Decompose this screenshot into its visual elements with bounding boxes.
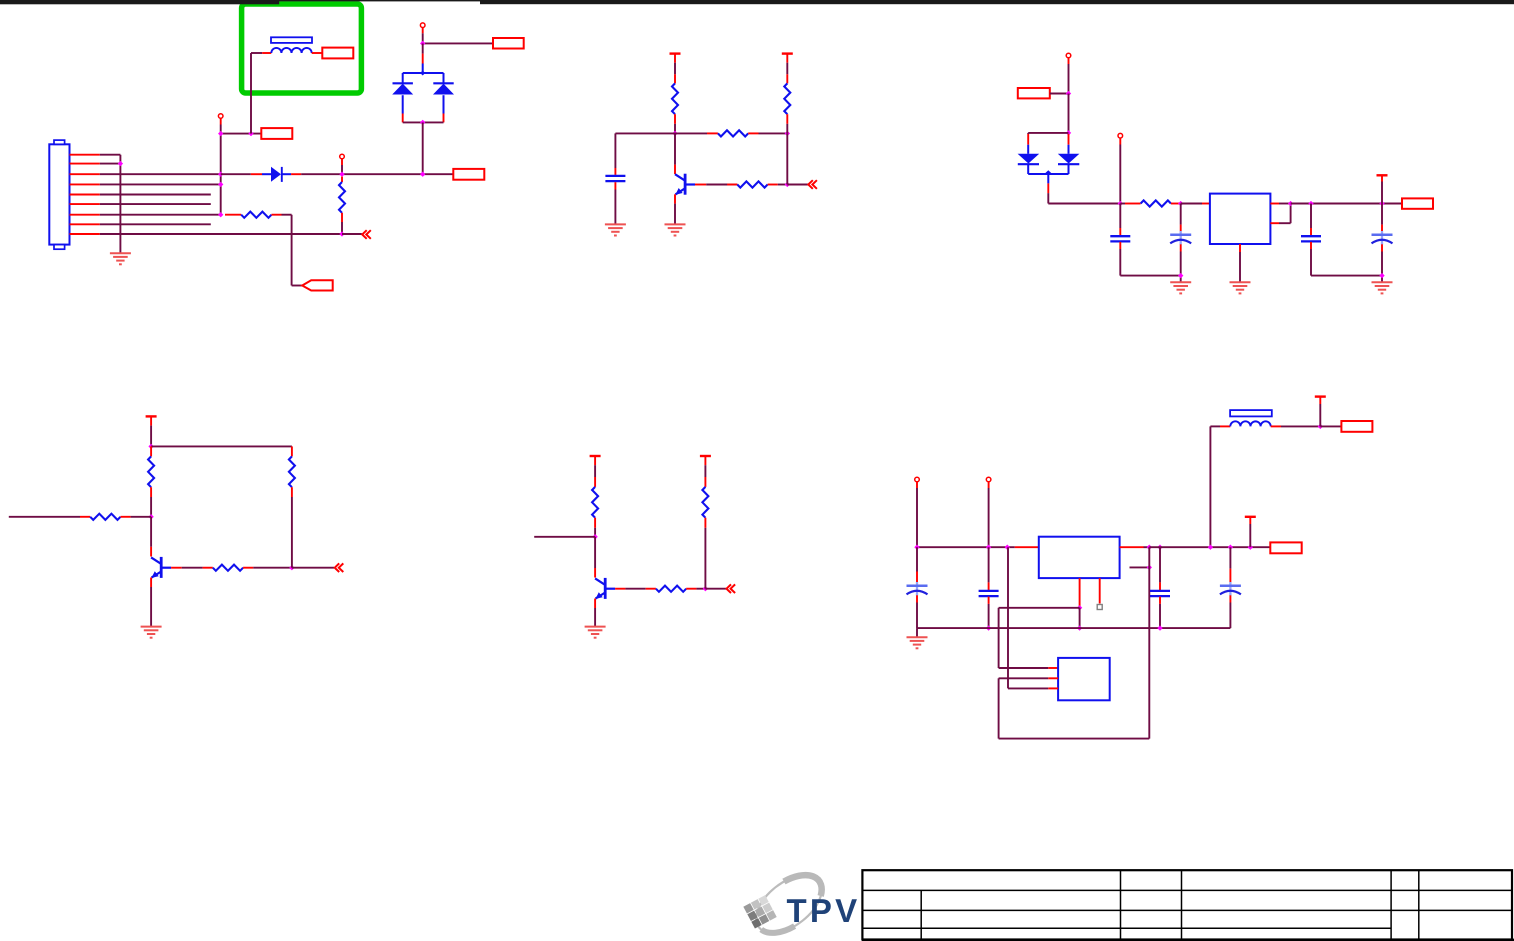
connector CN1 pin 5 lead (70, 194, 100, 196)
resistor R1 (339, 182, 345, 213)
logo pixel grid (743, 895, 776, 928)
resistor R2 (241, 212, 271, 218)
terminal P5 (1118, 133, 1123, 138)
blue junction (420, 70, 425, 75)
capacitor C10 top lead (1229, 547, 1231, 568)
zener D1 (up) (402, 73, 404, 83)
net stub dash (1130, 566, 1150, 568)
sheet top border left (0, 0, 279, 4)
wire U3 pin2 (999, 677, 1049, 679)
capacitor C3 bottom (1119, 242, 1121, 249)
junction C8 (1178, 273, 1183, 278)
main line seg b (301, 173, 453, 175)
no-connect square (1097, 605, 1102, 610)
wire gnd drop (119, 155, 121, 254)
U2 nc pin (1099, 578, 1101, 603)
Q3 emitter wire (594, 599, 596, 609)
ground drop (916, 628, 918, 637)
wire gnd continue (1079, 608, 1081, 628)
wire P2 down (422, 43, 424, 53)
net flag F1 (302, 280, 333, 290)
resistor R6 lead (786, 114, 788, 124)
wire P2 to label (423, 42, 493, 44)
resistor R6 (784, 83, 790, 114)
junction F2 (914, 545, 919, 550)
diode D3 left lead (251, 173, 262, 175)
junction D2 (148, 514, 153, 519)
regulator U1 (1210, 194, 1271, 244)
terminal P3 (340, 154, 345, 159)
resistor R7 right lead (1171, 203, 1181, 205)
ground G4 (1230, 281, 1251, 283)
wire coil left lead (251, 52, 262, 54)
wire T1 right branch (786, 133, 788, 184)
pair bottom rail (1028, 173, 1068, 175)
U2 gnd pin (1079, 578, 1081, 608)
terminal P6 (915, 477, 920, 482)
label box L8 (1270, 542, 1301, 553)
junction D3 (289, 565, 294, 570)
vertical bus x=220.7 (220, 134, 222, 215)
capacitor C6 bottom (1381, 244, 1383, 251)
rail y547 seg1 (917, 546, 1015, 548)
wire T6 down (704, 456, 706, 465)
junction pin4 (218, 182, 223, 187)
capacitor C5 bottom (1310, 242, 1312, 249)
resistor R9 right lead (121, 516, 131, 518)
resistor R5 right lead (768, 184, 778, 186)
sheet top border thin (0, 0, 1514, 1)
wire y607 (999, 607, 1080, 609)
junction bottom rail (420, 120, 425, 125)
wire to offpage E (705, 588, 726, 590)
U2 out lead (1120, 546, 1144, 548)
ferrite bead FB2 (1230, 410, 1272, 416)
connector CN1 pin 1 lead (70, 154, 100, 156)
connector CN1 pin 7 lead (70, 214, 100, 216)
ground G7 (141, 626, 162, 628)
transistor Q2 (160, 557, 163, 578)
junction D1 (148, 444, 153, 449)
junction F13 (986, 625, 991, 630)
wire cap drop (614, 133, 616, 168)
connector CN1 body (49, 144, 69, 244)
resistor R13 right lead (686, 588, 696, 590)
wire to offpage (342, 233, 362, 235)
junction F8 (1228, 545, 1233, 550)
wire T1 down (674, 54, 676, 63)
capacitor C10 (1229, 582, 1231, 596)
junction F12 (1077, 625, 1082, 630)
junction pin2-gnd (118, 161, 123, 166)
label box L5 (1018, 88, 1050, 98)
junction F6 (1157, 545, 1162, 550)
terminal P7 (986, 477, 991, 482)
capacitor C4 top lead (1180, 204, 1182, 225)
inductor L1 coil (271, 48, 311, 53)
wire left stub (534, 536, 595, 538)
junction C5 (1288, 201, 1293, 206)
rail y203 seg2 (1291, 203, 1402, 205)
capacitor C4 bottom (1180, 244, 1182, 251)
resistor R12 bottom lead (594, 518, 596, 528)
zener D5 (down) (1068, 134, 1070, 145)
diode D3 right lead (282, 173, 291, 175)
wire R2 to flag (282, 214, 292, 216)
capacitor C9 (1150, 590, 1170, 592)
wire label to P4 (1050, 93, 1069, 95)
wire U3 pin1 (999, 667, 1049, 669)
feedback drop (1148, 547, 1150, 738)
terminal P4 (1066, 53, 1071, 58)
junction F4 (1005, 545, 1010, 550)
junction F1 (1318, 424, 1323, 429)
capacitor C8 bottom (988, 597, 990, 604)
resistor R5 left lead (727, 184, 737, 186)
junction pin3 (218, 172, 223, 177)
resistor R10 (213, 565, 243, 571)
wire collector Q3 (594, 537, 596, 568)
wire T7 down (1319, 397, 1321, 404)
wire coil drop (250, 53, 252, 134)
wire pin4 (100, 183, 221, 185)
capacitor C5 top lead (1310, 204, 1312, 229)
ground G9 (907, 636, 928, 638)
resistor R8 bottom lead (150, 487, 152, 497)
inductor L2 coil (1230, 421, 1270, 426)
green highlight box (242, 4, 362, 93)
capacitor C6 (1381, 231, 1383, 245)
resistor R13 (656, 586, 686, 592)
diode pair bottom rail (403, 121, 444, 123)
junction F9 (1248, 545, 1253, 550)
junction R1-pin9 (339, 231, 344, 236)
power T1 (670, 52, 681, 54)
wire to label L7 (1320, 425, 1341, 427)
wire to offpage B (787, 184, 808, 186)
capacitor C6 top lead (1381, 204, 1383, 225)
connector CN1 pin 6 lead (70, 203, 100, 205)
junction pin7 (218, 212, 223, 217)
power T4 (146, 415, 157, 417)
inductor L2 right lead (1271, 425, 1281, 427)
junction C1 (1066, 91, 1071, 96)
capacitor C7 (916, 582, 918, 596)
label box L4 (453, 169, 484, 180)
svg-text:TPV: TPV (787, 892, 861, 929)
Q2 base leads (171, 567, 182, 569)
wire T4 down (150, 416, 152, 425)
wire collector Q1 (674, 133, 676, 164)
junction C7 (1379, 201, 1384, 206)
resistor R8 (148, 456, 154, 487)
U1 gnd pin (1239, 244, 1241, 252)
power T7 (1315, 395, 1326, 397)
regulator U2 (1039, 537, 1120, 578)
ground G2 (605, 223, 626, 225)
junction P2 (420, 41, 425, 46)
label box L7 (1341, 421, 1372, 432)
resistor R8 top lead (150, 446, 152, 456)
ground G3 (665, 223, 686, 225)
U1 out pin (1270, 203, 1279, 205)
title block table (862, 870, 1512, 939)
label box L1 (261, 128, 292, 139)
wire pin6 stub (100, 203, 211, 205)
inductor L2 left lead (1210, 425, 1220, 427)
capacitor C9 top lead (1159, 547, 1161, 582)
transistor Q1 base leads (695, 184, 706, 186)
controller U3 (1058, 658, 1110, 700)
junction F5 (1147, 545, 1152, 550)
zener D4 (down) (1027, 133, 1029, 134)
wire pin2 to node (100, 163, 121, 165)
junction C4 (1178, 201, 1183, 206)
resistor R2 right lead (272, 214, 282, 216)
capacitor C8 top lead (988, 547, 990, 582)
wire down (1068, 94, 1070, 133)
capacitor C5 (1301, 235, 1321, 237)
offpage chevron CH1 (362, 230, 367, 239)
junction F11 (1077, 605, 1082, 610)
junction B2 (785, 131, 790, 136)
junction F7 (1208, 545, 1213, 550)
junction pair (420, 172, 425, 177)
junction coil drop (248, 131, 253, 136)
connector CN1 pin 4 lead (70, 183, 100, 185)
wire pin8 stub (100, 223, 211, 225)
resistor R3 (672, 83, 678, 114)
junction E1 (592, 534, 597, 539)
wire collector Q2 (150, 517, 152, 547)
resistor R2 left lead (225, 214, 241, 216)
resistor R5 (737, 181, 767, 187)
terminal P1 (218, 114, 223, 119)
offpage chevron CH3 (335, 563, 340, 572)
power T5 (590, 455, 601, 457)
logo swoosh (746, 864, 832, 941)
ground G1 (110, 252, 131, 254)
ground G5 (1170, 281, 1191, 283)
drop x1008 (1007, 547, 1009, 688)
connector CN1 pin 2 lead (70, 163, 100, 165)
ground G8 (585, 626, 606, 628)
offpage chevron CH4 (727, 584, 732, 593)
capacitor C10 bottom (1229, 595, 1231, 602)
inductor L1 right lead (312, 52, 323, 54)
wire pair to main (422, 122, 424, 174)
rail y547 seg2 (1149, 546, 1270, 548)
label box L6 (1402, 198, 1433, 208)
resistor R7 left lead (1120, 203, 1125, 205)
offpage chevron CH2 (808, 180, 813, 189)
wire to U1 (1181, 203, 1202, 205)
resistor R14 bottom lead (704, 518, 706, 528)
capacitor C1 (605, 175, 625, 177)
resistor R4 (718, 130, 748, 136)
wire P1 to label (221, 133, 262, 135)
sheet top border right (480, 0, 1514, 4)
wire pin5 stub (100, 194, 211, 196)
resistor R11 (289, 456, 295, 487)
resistor R7 (1141, 200, 1171, 206)
capacitor C7 top lead (916, 547, 918, 571)
mid rail y628 (917, 627, 1230, 629)
label box L3 (493, 38, 524, 49)
emitter wire Q1 (674, 194, 676, 203)
diode pair top rail (403, 72, 444, 74)
power T8 (1245, 516, 1256, 518)
resistor R9 (90, 514, 120, 520)
junction F10 (1147, 565, 1152, 570)
rail y203 seg1 (1048, 203, 1120, 205)
bottom rail y738 (999, 738, 1150, 740)
wire pin1 to node (100, 154, 121, 156)
power T6 (700, 455, 711, 457)
drop x998 b (998, 678, 1000, 738)
terminal P2 (420, 23, 425, 28)
power T2 (782, 52, 793, 54)
junction C3 (1118, 201, 1123, 206)
wire T5 down (594, 456, 596, 465)
wire T3 down (1381, 175, 1383, 181)
wire pin7 (100, 214, 221, 216)
capacitor C8 (979, 590, 999, 592)
junction B3 (785, 182, 790, 187)
junction F3 (986, 545, 991, 550)
capacitor C4 (1180, 231, 1182, 245)
connector CN1 pin 3 lead (70, 173, 100, 175)
junction P3 (339, 172, 344, 177)
sheet bottom border (862, 939, 1514, 941)
wire pair top (1028, 132, 1068, 134)
junction F14 (1157, 625, 1162, 630)
wire L2 drop (1209, 426, 1211, 547)
resistor R1 top lead (341, 177, 343, 182)
junction C9 (1379, 273, 1384, 278)
junction E2 (703, 586, 708, 591)
power T3 (1377, 174, 1388, 176)
junction B1 (672, 131, 677, 136)
ferrite bead FB1 (271, 37, 312, 43)
resistor R3 lead (674, 114, 676, 124)
resistor R1 bottom lead (341, 213, 343, 222)
wire pin3 main (100, 173, 221, 175)
center tap (1047, 174, 1049, 183)
ground G6 (1372, 281, 1393, 283)
diode D3 (271, 167, 281, 182)
U1 sense pin (1270, 222, 1279, 224)
capacitor C7 bottom (916, 595, 918, 602)
transistor Q3 (604, 578, 607, 599)
resistor R11 top lead (291, 446, 293, 456)
resistor R4 right lead (748, 132, 758, 134)
capacitor C3 (1110, 235, 1130, 237)
resistor R14 (702, 487, 708, 518)
wire pin9 long (100, 233, 342, 235)
transistor Q1 (684, 174, 687, 195)
connector CN1 pin 8 lead (70, 223, 100, 225)
top wire (151, 445, 292, 447)
junction P1 (218, 131, 223, 136)
Q3 base leads (615, 588, 625, 590)
capacitor C1 bottom lead (614, 182, 616, 189)
connector CN1 pin 9 lead (70, 233, 100, 235)
drop x998 (998, 608, 1000, 668)
node wire y133 (615, 132, 707, 134)
resistor R12 (592, 487, 598, 518)
resistor R11 bottom lead (291, 487, 293, 497)
wire T2 down (786, 54, 788, 63)
capacitor C9 bottom (1159, 597, 1161, 604)
wire U3 pin3 (1008, 687, 1048, 689)
capacitor C3 top lead (1119, 204, 1121, 229)
main line seg a (221, 173, 251, 175)
label box L2 (322, 48, 353, 59)
junction C6 (1308, 201, 1313, 206)
zener D2 (up) (443, 73, 445, 83)
wire T8 down (1249, 517, 1251, 524)
junction C2 (1066, 130, 1071, 135)
wire to offpage D (292, 567, 334, 569)
base wire left (9, 516, 80, 518)
Q2 emitter wire (150, 578, 152, 588)
resistor R10 right lead (243, 567, 253, 569)
